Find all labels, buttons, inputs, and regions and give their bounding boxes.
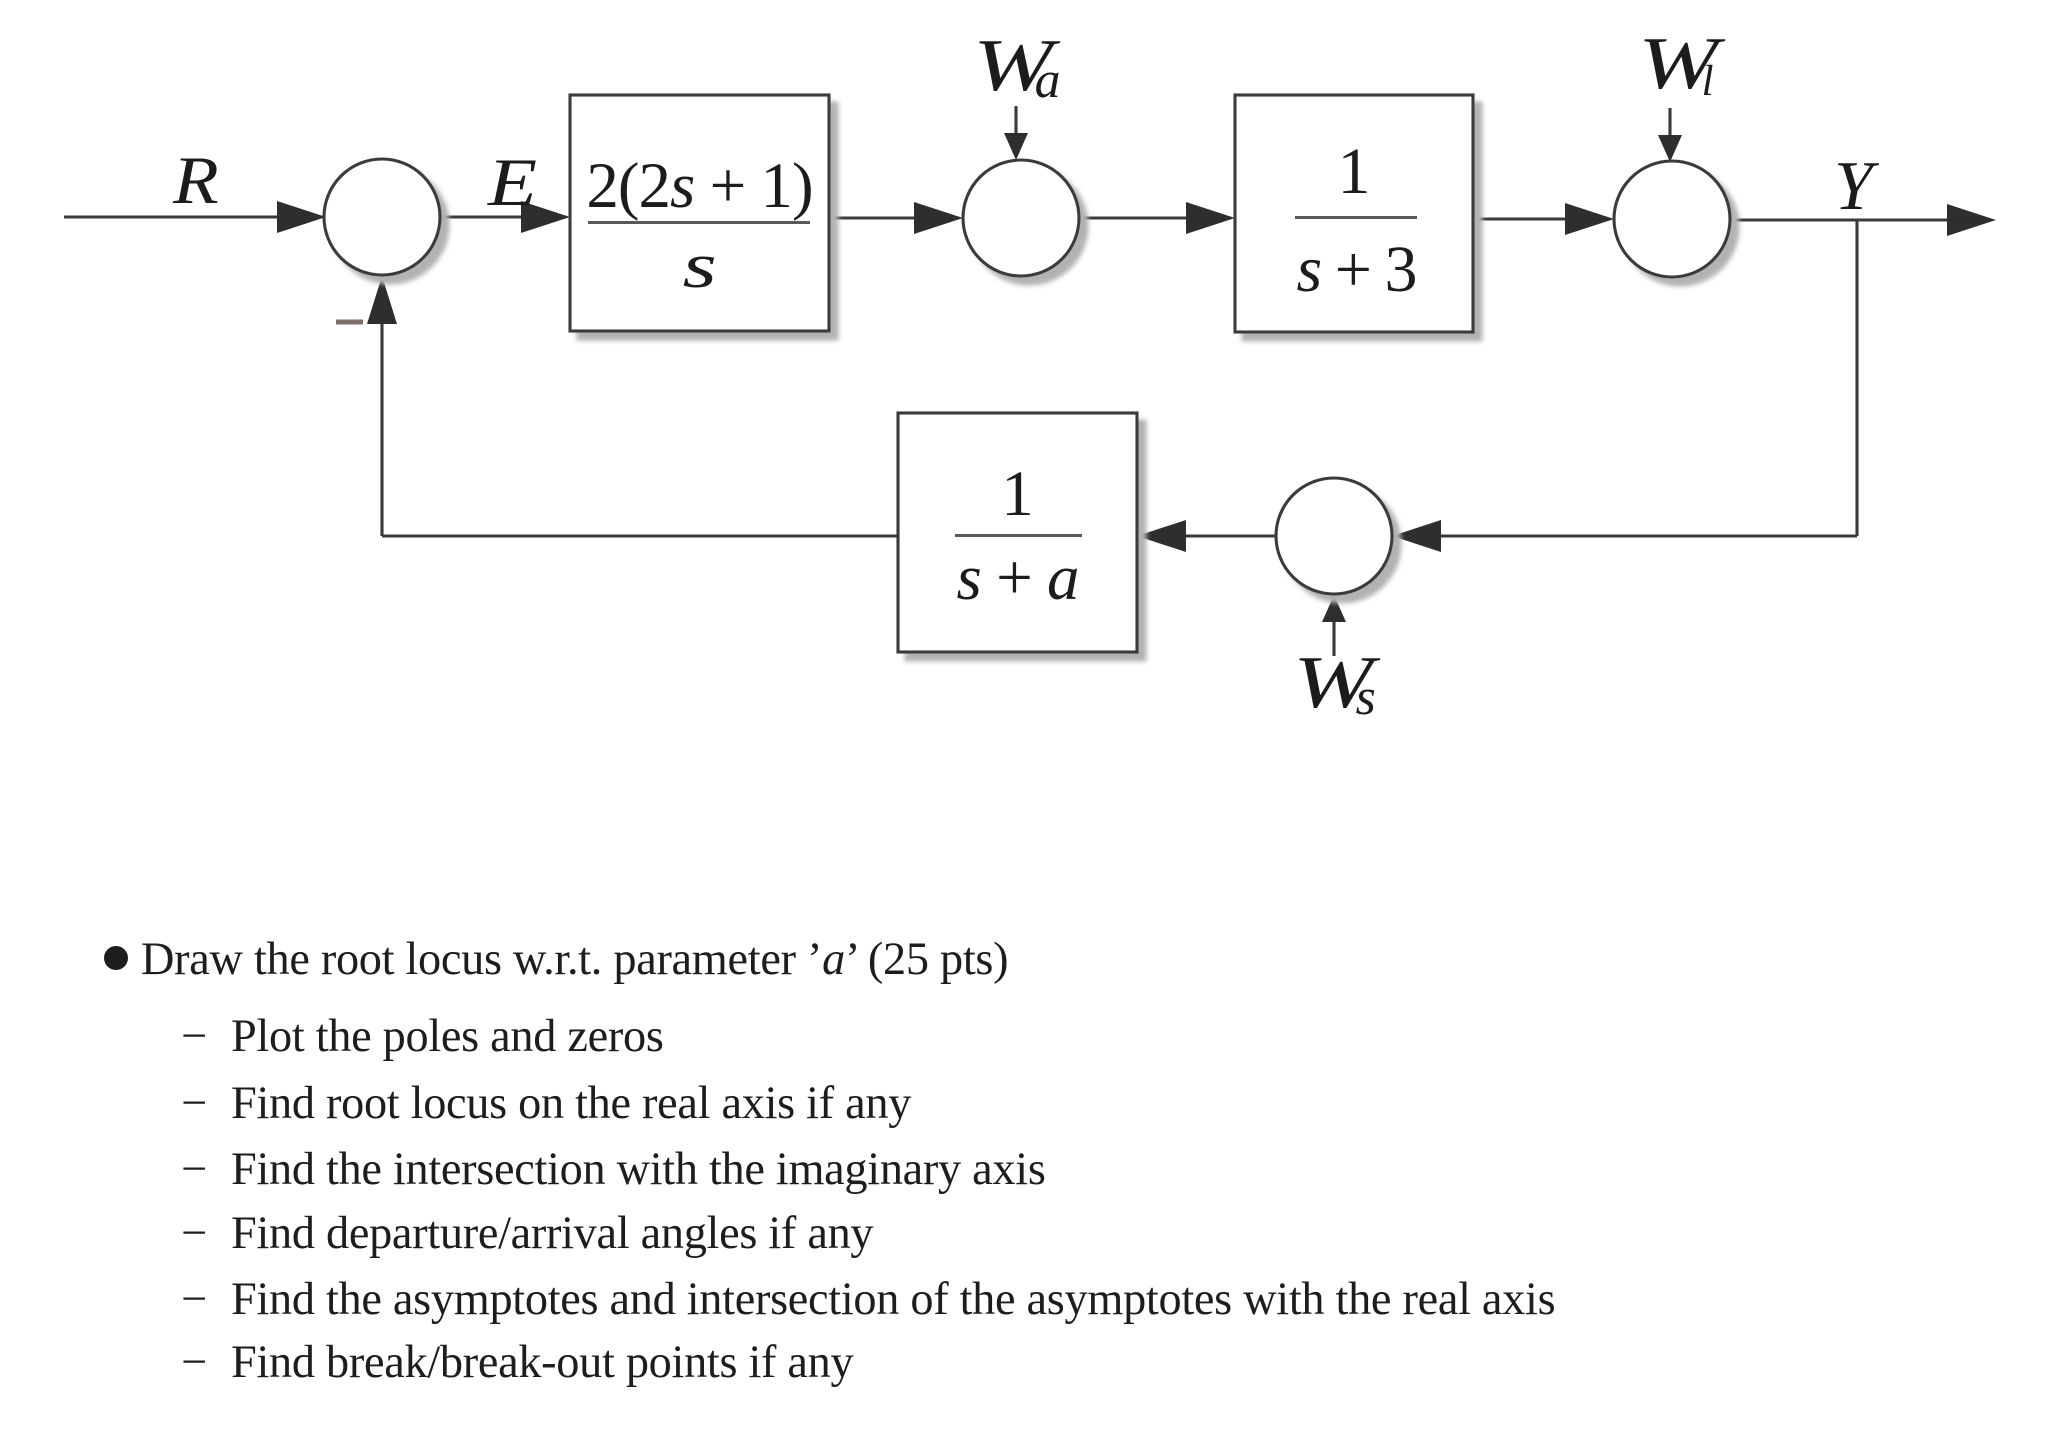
arrowhead into sum4 from right xyxy=(1392,520,1441,552)
arrowhead feedback into sum1 bottom xyxy=(367,276,397,324)
node Ws label xyxy=(1293,646,1376,720)
summing junction sum3 xyxy=(1614,161,1730,277)
node Wl label xyxy=(1638,27,1714,101)
sub item 5 xyxy=(181,1277,207,1323)
arrowhead Wa into sum2 top xyxy=(1004,133,1028,160)
node E label xyxy=(488,148,530,216)
wire sum1 to block G1 xyxy=(440,215,538,218)
node Y label xyxy=(1834,152,1873,222)
arrowhead Ws into sum4 bottom xyxy=(1322,595,1346,622)
arrowhead Wl into sum3 top xyxy=(1658,135,1682,162)
wire block H to left xyxy=(382,534,898,537)
wire sum2 to block G2 xyxy=(1079,216,1200,219)
wire sum4 to block H xyxy=(1170,534,1276,537)
minus sign at sum1 xyxy=(336,320,363,325)
block G2 value numerator 1 xyxy=(1235,139,1473,205)
wire sum3 to output Y xyxy=(1730,218,1960,221)
arrowhead into block G1 xyxy=(521,201,570,233)
sub item 6 xyxy=(181,1340,207,1386)
arrowhead output Y xyxy=(1947,204,1996,236)
wire branch Y down xyxy=(1855,220,1858,536)
sub item 4 xyxy=(181,1211,207,1257)
block H fraction bar xyxy=(955,534,1082,537)
arrowhead into block G2 xyxy=(1186,202,1235,234)
wire feedback up to sum1 xyxy=(380,310,383,536)
node Wa label xyxy=(973,29,1061,103)
wire input R xyxy=(64,215,290,218)
sub item 1 xyxy=(181,1014,207,1060)
wire Wl drop xyxy=(1668,108,1671,140)
block H value denominator s+a xyxy=(898,546,1137,611)
wire branch to sum4 xyxy=(1425,534,1857,537)
summing junction sum4 xyxy=(1276,478,1392,594)
block G2 fraction bar xyxy=(1295,216,1417,219)
arrowhead into sum2 xyxy=(914,202,963,234)
block H value numerator 1 xyxy=(898,462,1137,527)
node R label xyxy=(173,146,215,214)
bullet item xyxy=(104,946,128,970)
block G2 1/(s+3) xyxy=(1235,95,1473,332)
wire block G1 to sum2 xyxy=(829,216,930,219)
block G1 2(2s+1)/s xyxy=(570,95,829,331)
sub item 2 xyxy=(181,1081,207,1127)
summing junction sum1 xyxy=(324,159,440,275)
wire Ws rise xyxy=(1332,622,1335,656)
arrowhead into sum3 xyxy=(1565,203,1614,235)
summing junction sum2 xyxy=(963,160,1079,276)
block H 1/(s+a) xyxy=(898,413,1137,652)
block G1 fraction bar xyxy=(588,221,810,224)
block G1 value denominator s xyxy=(570,234,829,299)
wire block G2 to sum3 xyxy=(1473,217,1580,220)
wire Wa drop xyxy=(1014,106,1017,138)
arrowhead into block H xyxy=(1137,520,1186,552)
sub item 3 xyxy=(181,1147,207,1193)
block G1 value numerator 2(2s+1) xyxy=(570,154,829,219)
arrowhead into sum1 xyxy=(277,201,326,233)
block G2 value denominator s+3 xyxy=(1237,237,1475,303)
